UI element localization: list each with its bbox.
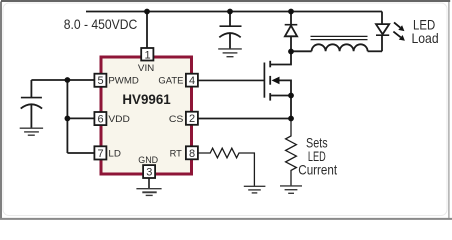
svg-text:6: 6 xyxy=(98,114,104,126)
svg-text:HV9961: HV9961 xyxy=(122,92,171,107)
svg-text:Load: Load xyxy=(412,30,439,46)
svg-text:8: 8 xyxy=(189,148,195,160)
svg-text:5: 5 xyxy=(98,75,104,87)
svg-text:1: 1 xyxy=(144,49,150,61)
svg-text:RT: RT xyxy=(170,148,182,159)
svg-text:GND: GND xyxy=(138,154,158,165)
svg-text:3: 3 xyxy=(146,167,152,179)
svg-text:LD: LD xyxy=(108,148,121,159)
svg-text:7: 7 xyxy=(98,148,104,160)
svg-text:CS: CS xyxy=(169,113,184,124)
svg-text:VIN: VIN xyxy=(138,62,154,73)
svg-text:4: 4 xyxy=(189,75,195,87)
svg-text:2: 2 xyxy=(189,113,195,125)
svg-text:PWMD: PWMD xyxy=(108,75,139,86)
svg-text:VDD: VDD xyxy=(108,113,130,124)
svg-text:8.0 - 450VDC: 8.0 - 450VDC xyxy=(64,16,138,32)
svg-text:GATE: GATE xyxy=(158,75,183,86)
svg-text:Current: Current xyxy=(298,162,337,178)
